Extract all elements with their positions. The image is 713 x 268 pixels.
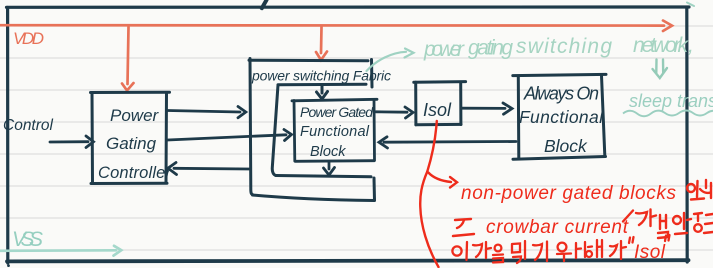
svg-text:Control: Control bbox=[3, 117, 54, 134]
svg-text:Functional: Functional bbox=[519, 107, 604, 127]
svg-text:Isol: Isol bbox=[634, 242, 666, 263]
svg-text:Block: Block bbox=[310, 144, 346, 160]
svg-text:crowbar current: crowbar current bbox=[486, 217, 629, 238]
svg-text:sleep transistor: sleep transistor bbox=[629, 91, 713, 111]
svg-text:Power: Power bbox=[110, 106, 160, 125]
svg-text:switching: switching bbox=[516, 35, 612, 58]
svg-text:VSS: VSS bbox=[12, 228, 43, 251]
svg-text:Gating: Gating bbox=[106, 134, 157, 153]
svg-text:Power Gated: Power Gated bbox=[300, 104, 374, 120]
svg-text:non-power gated blocks: non-power gated blocks bbox=[461, 183, 677, 204]
svg-text:gating: gating bbox=[468, 37, 513, 60]
svg-text:Functional: Functional bbox=[300, 124, 370, 140]
svg-text:Controller: Controller bbox=[98, 164, 173, 182]
svg-text:power: power bbox=[423, 38, 465, 61]
svg-text:Isol: Isol bbox=[423, 100, 452, 120]
svg-text:network: network bbox=[633, 34, 690, 57]
svg-text:Block: Block bbox=[544, 136, 588, 156]
svg-text:power switching Fabric: power switching Fabric bbox=[251, 68, 391, 84]
svg-text:,: , bbox=[688, 34, 694, 57]
svg-text:VDD: VDD bbox=[13, 29, 44, 48]
svg-text:Always On: Always On bbox=[523, 84, 599, 104]
